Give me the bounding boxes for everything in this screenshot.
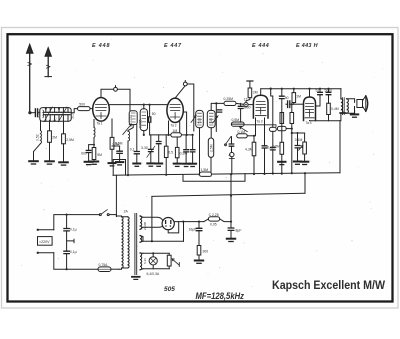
wire IF transformer primary drop	[187, 84, 194, 131]
mains transformer core	[135, 213, 137, 274]
mains transformer secondary	[140, 216, 143, 270]
mains terminal upper	[37, 229, 54, 231]
wire osc coil to bus	[128, 125, 133, 175]
svg-text:E 448: E 448	[92, 43, 110, 49]
resistor 0,4M tone	[327, 103, 331, 121]
wire pill to grid-leak line	[286, 128, 292, 130]
mains terminal lower	[37, 252, 54, 254]
speaker	[357, 96, 368, 112]
choke 0,05	[204, 217, 231, 222]
ground capacitor 192	[189, 164, 196, 167]
ground 0,3M	[174, 164, 181, 167]
resistor 500 grid stopper	[71, 107, 93, 113]
svg-text:0,1M: 0,1M	[238, 130, 246, 134]
wire AF rail y134.9	[150, 134, 193, 136]
capacitor bias bypass	[295, 132, 300, 161]
svg-text:Ta 4: Ta 4	[306, 121, 312, 125]
svg-text:0,05: 0,05	[210, 223, 217, 227]
output transformer primary	[341, 89, 343, 121]
label box 220V	[38, 237, 53, 246]
svg-text:1,5M: 1,5M	[201, 168, 209, 172]
wire antenna to series cap	[30, 112, 35, 114]
resistor 0,1M wiper pill	[277, 126, 286, 130]
svg-text:=220V: =220V	[39, 240, 50, 244]
svg-text:C 2,25: C 2,25	[209, 213, 219, 217]
svg-text:0,5: 0,5	[168, 151, 173, 155]
svg-text:2x300: 2x300	[143, 221, 147, 230]
svg-text:5T: 5T	[316, 88, 320, 92]
svg-text:0,3M: 0,3M	[180, 152, 188, 156]
resistor 2M grid leak	[246, 81, 253, 103]
resistor 1M horizontal	[171, 133, 182, 137]
svg-text:0,10: 0,10	[37, 111, 41, 118]
border frame	[8, 34, 393, 301]
wire rectifier output	[174, 221, 204, 223]
trimmer arrow oscillator	[123, 124, 132, 135]
wire pot wiper line y124.8	[244, 125, 276, 127]
tube E447 legs	[167, 112, 187, 136]
antenna 1	[26, 44, 33, 113]
pilot lamp	[149, 252, 157, 269]
ground 0,5uF	[116, 160, 123, 165]
resistor 0,4M grid leak output	[290, 103, 294, 173]
resistor 0,5M AVC	[280, 142, 284, 173]
trimmer arrow IF	[191, 115, 196, 122]
resistor 1M coupling	[292, 88, 296, 105]
ground trimmer	[147, 163, 154, 166]
svg-text:0,035: 0,035	[139, 119, 143, 128]
wire IF coil B to resistor oval	[210, 128, 212, 138]
svg-text:3-30: 3-30	[141, 146, 148, 150]
svg-text:1M: 1M	[296, 95, 301, 99]
capacitor 5000 tone b	[326, 88, 331, 104]
switch mains	[99, 210, 116, 216]
main bus bottom	[113, 173, 340, 176]
node antenna input	[28, 111, 31, 114]
svg-text:E 447: E 447	[164, 43, 182, 49]
svg-text:Ta 3: Ta 3	[257, 120, 263, 124]
resistor 0,5M screen	[110, 119, 114, 163]
output transformer core	[343, 98, 345, 115]
svg-text:E 444: E 444	[252, 43, 269, 49]
capacitor IF tuning	[215, 102, 222, 131]
wire plate rail y104.6	[109, 104, 167, 106]
svg-text:0,52: 0,52	[129, 115, 133, 122]
wire plate E444 to bus	[260, 89, 262, 96]
svg-text:17: 17	[244, 98, 248, 102]
wire rectifier filament loop	[168, 222, 183, 242]
resistor 1,5M on bus	[200, 172, 212, 176]
capacitor under tube E447	[184, 135, 189, 163]
svg-text:5000: 5000	[325, 88, 333, 92]
wire tube E444 cathode leg	[231, 118, 255, 136]
capacitor 5000 AF	[156, 135, 161, 163]
svg-text:510: 510	[71, 113, 75, 119]
svg-text:0,52: 0,52	[36, 134, 40, 141]
ground capacitor AF	[155, 164, 162, 167]
wire rectifier riser	[230, 174, 232, 228]
capacitor line filter b	[64, 214, 69, 271]
ground output transformer	[340, 112, 345, 113]
scan noise speckles	[21, 39, 383, 287]
ground AVC tap	[278, 162, 285, 165]
ground capacitor 600	[85, 162, 93, 165]
svg-text:Ta 2: Ta 2	[171, 123, 177, 127]
svg-text:4,3M: 4,3M	[245, 148, 253, 152]
svg-text:Ta 1: Ta 1	[97, 122, 103, 126]
svg-text:0,5M: 0,5M	[273, 145, 281, 149]
IF transformer coil A	[196, 110, 204, 127]
trimmer 3-30	[147, 135, 155, 163]
coupling capacitor to output grid	[286, 101, 304, 108]
capacitor 600 cathode bypass	[86, 144, 95, 162]
resistor 2M	[48, 120, 52, 160]
switch PU	[225, 137, 231, 146]
wire B+ left end to HV	[151, 196, 153, 242]
svg-text:600: 600	[81, 152, 87, 156]
top supply bus y88.35	[261, 88, 341, 90]
ground transformer core	[132, 277, 140, 280]
node B+ tick	[270, 88, 272, 94]
band filter block	[40, 107, 71, 122]
oscillator coil box 0,52	[129, 111, 137, 125]
grid cap tube E444	[244, 103, 254, 107]
ground 2M	[45, 161, 54, 164]
wire to grid cap	[236, 102, 244, 105]
svg-text:2,5M: 2,5M	[209, 144, 213, 152]
ground 8uF	[227, 239, 235, 242]
svg-text:505: 505	[164, 286, 175, 293]
wire B+ elbow right	[304, 173, 306, 193]
svg-text:300: 300	[203, 250, 209, 254]
wire mains lower drop	[54, 253, 98, 269]
node bus dots	[127, 172, 306, 176]
capacitor 8uF	[228, 228, 234, 238]
capacitor 5000 tone a	[316, 88, 323, 106]
svg-text:E 443 H: E 443 H	[296, 43, 318, 49]
capacitor 50 grid osc	[149, 104, 151, 135]
svg-text:0,5M: 0,5M	[232, 118, 240, 122]
svg-text:Kapsch Excellent M/W: Kapsch Excellent M/W	[272, 278, 386, 292]
svg-text:510: 510	[209, 118, 213, 124]
wire pot to 4,3M	[247, 135, 254, 137]
tube E448 top cap wire	[101, 86, 130, 111]
wire heater top	[143, 240, 184, 242]
wire filter center tap	[67, 239, 74, 242]
coil 0,52 input	[34, 120, 42, 160]
ground cathode	[90, 162, 98, 165]
wire oval to bus	[210, 157, 212, 176]
capacitor 16uF	[196, 222, 202, 246]
ground speaker	[351, 107, 358, 118]
capacitor line filter a	[64, 215, 69, 252]
resistor 2,5M oval vertical	[208, 138, 213, 157]
resistor 2,5M	[62, 120, 66, 161]
wire IF coil A to AVC bus	[199, 128, 201, 173]
svg-text:5M: 5M	[97, 153, 102, 157]
ground capacitor	[183, 164, 190, 167]
fuse 0,75A	[98, 267, 119, 272]
ground bias cap	[294, 162, 301, 165]
wire loop below bus	[183, 174, 245, 182]
resistor 300	[197, 246, 201, 261]
resistor 0,25M	[224, 101, 236, 105]
potentiometer hum	[299, 133, 307, 161]
wire B+ drop from output	[339, 121, 341, 173]
wire HV secondary to rectifier	[143, 217, 163, 227]
svg-text:0,1µ: 0,1µ	[70, 228, 77, 232]
rheostat heater	[167, 253, 179, 268]
tube E448 cathode coil	[94, 120, 95, 148]
svg-text:500: 500	[79, 102, 85, 106]
rectifier tube	[162, 218, 174, 230]
resistor 5M cathode	[92, 148, 96, 162]
svg-text:2,5M: 2,5M	[66, 138, 74, 142]
capacitor 50 AVC	[280, 88, 285, 143]
svg-text:16µF: 16µF	[189, 228, 197, 232]
oscillator coil winding 0,035	[140, 104, 147, 136]
svg-text:5000: 5000	[243, 106, 251, 110]
svg-text:8µF: 8µF	[236, 228, 242, 232]
svg-text:510: 510	[197, 118, 201, 124]
svg-text:2M: 2M	[253, 91, 258, 95]
jack PU	[229, 152, 234, 174]
tube E448 envelope	[93, 98, 110, 122]
svg-text:2A: 2A	[124, 209, 129, 213]
svg-text:0,1µ: 0,1µ	[70, 250, 77, 254]
B+ bus y195.8	[152, 193, 305, 196]
svg-text:6,4/0,3A: 6,4/0,3A	[147, 272, 160, 276]
wire detector grid y103.4	[211, 103, 224, 110]
ground 0,1u osc	[133, 164, 140, 167]
ground 0,5M	[109, 163, 116, 166]
resistor 0,5M AF	[164, 135, 168, 175]
antenna 2	[45, 48, 52, 77]
svg-text:50: 50	[152, 112, 156, 116]
svg-text:0,25M: 0,25M	[224, 97, 234, 101]
volume pot 0,5M	[231, 122, 247, 132]
ground 2,5M	[59, 162, 68, 165]
tube E447 envelope	[167, 98, 183, 122]
svg-text:0,1M: 0,1M	[295, 138, 303, 142]
resistor 0,1M below pot	[237, 134, 248, 138]
wire bus to mains transformer	[115, 175, 117, 216]
AVC feed column x272.8	[269, 93, 276, 174]
IF transformer coil B	[207, 110, 215, 127]
ground 300	[195, 261, 203, 264]
wire plate E443H to bus	[308, 88, 310, 97]
capacitor 5000	[238, 103, 243, 122]
svg-text:50: 50	[285, 96, 289, 100]
capacitor 0,5uF bypass	[112, 146, 122, 160]
capacitor antenna series	[35, 109, 39, 117]
ground input coil	[29, 161, 38, 164]
wire cathode rail output	[310, 120, 341, 122]
capacitor PU	[229, 137, 233, 153]
wire bias rail y133	[292, 132, 305, 134]
resistor 0,3M	[175, 137, 179, 163]
svg-text:0,5µ: 0,5µ	[113, 142, 120, 146]
tube E444 envelope	[253, 95, 268, 118]
tube E443H envelope	[304, 97, 316, 121]
ground hum pot	[301, 162, 308, 165]
svg-text:1M: 1M	[173, 129, 178, 133]
svg-text:0,1: 0,1	[130, 148, 135, 152]
resistor 4,3M	[252, 135, 256, 174]
capacitor 0,1u osc	[134, 125, 139, 163]
svg-text:2M: 2M	[52, 136, 57, 140]
svg-text:6,3V: 6,3V	[143, 258, 147, 264]
mains transformer primary	[116, 215, 129, 270]
capacitor 0,1u detector	[262, 118, 267, 174]
tube E447 top cap	[175, 81, 187, 99]
svg-text:0,75A: 0,75A	[99, 263, 109, 267]
svg-text:MF=128,5kHz: MF=128,5kHz	[196, 291, 245, 301]
resistor AVC upper	[280, 113, 284, 124]
wire mains upper riser	[54, 215, 100, 230]
wire heater bottom	[143, 268, 169, 270]
capacitor 192	[190, 134, 195, 163]
svg-text:0,4M: 0,4M	[331, 107, 339, 111]
output transformer secondary	[347, 99, 355, 113]
